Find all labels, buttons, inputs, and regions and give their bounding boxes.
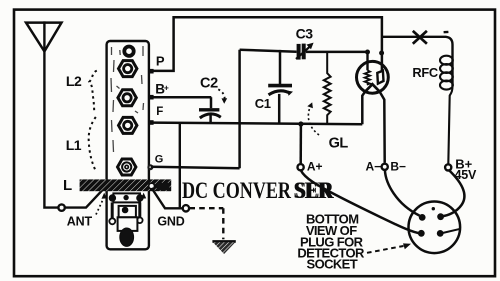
terminal ANT	[58, 204, 64, 210]
junction dot A+	[298, 121, 303, 126]
svg-text:GND: GND	[157, 215, 184, 229]
wire filament left	[362, 92, 365, 125]
choke RFC coil loops	[440, 56, 453, 165]
resistor GL	[324, 51, 331, 125]
terminal A-/B-	[382, 164, 388, 170]
ground symbol	[212, 241, 235, 254]
svg-text:GL: GL	[329, 136, 349, 152]
tube grid lead	[366, 52, 368, 70]
svg-text:A−: A−	[366, 160, 382, 174]
terminal A+	[298, 164, 304, 170]
tube filament	[365, 84, 380, 92]
capacitor C3	[296, 43, 314, 60]
wire B+ to plug	[442, 170, 465, 216]
wire A-/B- to plug	[385, 170, 420, 216]
wire B+ stub	[153, 96, 212, 99]
terminal tick F	[149, 120, 154, 125]
tube V1 envelope	[357, 61, 389, 93]
wire P riser and top bus	[153, 17, 382, 71]
svg-text:L: L	[63, 177, 72, 194]
wire G bus	[151, 167, 240, 169]
dotted pointer from ANT	[96, 200, 103, 215]
plug circle (bottom view)	[409, 202, 461, 254]
svg-text:A+: A+	[307, 160, 323, 174]
brace L2 (dotted)	[89, 71, 97, 111]
plug pin 4	[437, 230, 444, 237]
tube plate	[377, 71, 383, 84]
plug key dot	[432, 207, 435, 210]
brace L1 (dotted)	[89, 117, 97, 172]
svg-text:P: P	[156, 54, 165, 69]
svg-text:G: G	[155, 153, 164, 165]
terminal tick G	[147, 164, 153, 170]
tube grid zigzag	[365, 70, 370, 84]
plug pin 1	[419, 214, 426, 221]
antenna	[26, 23, 62, 52]
svg-text:C3: C3	[296, 26, 314, 42]
note text	[297, 211, 365, 271]
plug pin 2	[437, 213, 444, 220]
tick mark above RFC	[444, 31, 449, 34]
terminal B+ 45V	[445, 164, 451, 170]
svg-text:C1: C1	[255, 96, 271, 111]
dotted pointer GL	[308, 106, 319, 136]
wire antenna lead	[44, 23, 101, 208]
break symbol X	[413, 31, 427, 44]
plug pin 4 tail	[443, 229, 461, 233]
svg-text:L2: L2	[66, 73, 82, 89]
dashed wire to ground	[189, 208, 223, 239]
binding post 4	[119, 117, 137, 133]
svg-text:RFC: RFC	[412, 65, 437, 80]
dotted pointer C2	[218, 89, 224, 100]
svg-text:B−: B−	[390, 160, 406, 174]
terminal GND	[183, 205, 189, 211]
svg-text:DC CONVER: DC CONVER	[182, 178, 291, 204]
label DC CONVERSER	[182, 178, 334, 204]
terminal tick B	[149, 95, 154, 100]
wire filament right to B-	[380, 92, 385, 163]
binding post 5	[118, 159, 136, 175]
svg-text:C2: C2	[200, 76, 218, 92]
wire G-to-GND vertical	[179, 123, 181, 208]
dashed arrow to plug	[367, 246, 404, 253]
wire F bus	[151, 123, 362, 125]
coil form (tube base strip)	[107, 41, 149, 249]
terminal tick P	[149, 69, 154, 74]
binding post 2	[119, 61, 137, 77]
strip texture marks	[111, 46, 144, 152]
svg-text:L1: L1	[66, 137, 82, 153]
binding post 3	[118, 90, 136, 106]
capacitor C2	[199, 97, 221, 123]
wire plate to X to RFC	[382, 37, 453, 86]
wire grid box vertical	[238, 50, 241, 169]
pointer arrows under winding	[102, 193, 107, 199]
wire GND link	[152, 188, 183, 208]
svg-text:SOCKET: SOCKET	[307, 257, 358, 272]
svg-text:ANT: ANT	[67, 214, 93, 228]
coil winding L (hatched band)	[80, 179, 172, 191]
plug pin 3	[418, 230, 425, 237]
capacitor C1	[268, 50, 293, 124]
wire grid bus	[240, 50, 368, 52]
wire A+ to plug	[301, 170, 419, 233]
svg-text:F: F	[156, 106, 163, 118]
wire A+ drop	[299, 124, 302, 164]
junction dot plate	[379, 51, 384, 56]
binding post 1	[123, 45, 135, 57]
junction dot grid	[365, 50, 370, 55]
socket hardware detail	[109, 193, 143, 246]
svg-text:+: +	[164, 82, 169, 92]
